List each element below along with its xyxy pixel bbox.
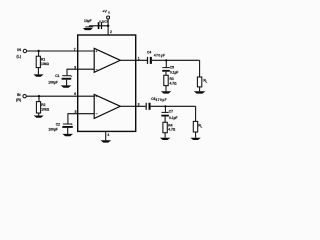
svg-text:R2: R2	[41, 103, 45, 107]
svg-text:+: +	[95, 50, 97, 54]
svg-text:0.1µF: 0.1µF	[170, 71, 179, 75]
capacitor C2	[63, 124, 72, 125]
svg-text:10kΩ: 10kΩ	[41, 108, 50, 112]
svg-text:470µF: 470µF	[154, 54, 166, 58]
ground C2	[62, 134, 73, 136]
wire RL1 down	[199, 60, 201, 77]
node zobel 2	[164, 105, 166, 107]
input terminal R	[23, 95, 26, 98]
resistor R4	[163, 122, 167, 132]
ground RL2	[190, 138, 200, 140]
svg-text:C2: C2	[56, 122, 60, 126]
ground R1	[33, 74, 43, 76]
node input L	[37, 50, 39, 52]
svg-text:3: 3	[138, 102, 140, 106]
svg-text:1: 1	[138, 57, 140, 61]
node zobel 1	[165, 59, 167, 61]
svg-text:4.7Ω: 4.7Ω	[170, 82, 178, 86]
load RL2	[193, 121, 197, 132]
svg-text:6: 6	[74, 92, 76, 96]
svg-text:10kΩ: 10kΩ	[41, 62, 50, 66]
wire R2 top	[38, 96, 40, 101]
svg-text:C4: C4	[147, 50, 151, 54]
resistor R1	[36, 56, 40, 67]
wire pin 4 ground	[105, 131, 107, 140]
wire +Vs to pin 2	[107, 19, 109, 35]
svg-text:(R): (R)	[16, 98, 22, 102]
svg-text:100µF: 100µF	[48, 80, 57, 84]
wire C4 to RL1	[152, 59, 200, 61]
svg-text:100µF: 100µF	[48, 127, 57, 131]
capacitor C7	[164, 106, 166, 112]
svg-text:IN: IN	[17, 48, 21, 52]
svg-text:4.7Ω: 4.7Ω	[168, 128, 176, 132]
input terminal L	[23, 49, 26, 52]
wire pin 5	[68, 114, 94, 124]
svg-text:R1: R1	[41, 57, 45, 61]
resistor R2	[36, 102, 40, 113]
svg-text:0.1µF: 0.1µF	[169, 116, 178, 120]
svg-text:+: +	[95, 95, 97, 99]
svg-text:7: 7	[74, 48, 76, 52]
wire input L to pin 7	[27, 50, 95, 52]
svg-text:4: 4	[107, 133, 109, 137]
resistor R3	[164, 75, 168, 85]
svg-text:2: 2	[110, 30, 112, 34]
capacitor C4	[147, 57, 148, 64]
wire C6 to RL2	[151, 105, 196, 107]
wire pin 3 output	[120, 105, 145, 107]
op-amp A1	[94, 48, 120, 72]
svg-text:C1: C1	[55, 74, 59, 78]
wire RL2 down	[195, 106, 197, 121]
ground R3	[161, 91, 171, 93]
svg-text:+V: +V	[102, 10, 107, 14]
ground RL1	[194, 91, 206, 93]
wire R1 top	[38, 51, 40, 56]
node input R	[38, 95, 40, 97]
capacitor C5	[165, 60, 167, 67]
svg-text:470µF: 470µF	[156, 98, 168, 102]
ground pin 4	[101, 140, 112, 142]
svg-text:−: −	[96, 67, 98, 71]
capacitor 10uF	[88, 25, 90, 28]
ground C1	[61, 85, 72, 87]
load RL1	[197, 77, 201, 87]
ground R4	[160, 138, 170, 140]
svg-text:R3: R3	[170, 77, 174, 81]
svg-text:R4: R4	[168, 123, 172, 127]
svg-text:9: 9	[74, 66, 76, 70]
IC box U1	[78, 35, 136, 131]
svg-text:S: S	[108, 10, 110, 14]
node supply	[107, 25, 110, 28]
wire R2 bottom	[38, 113, 40, 116]
capacitor C6	[146, 103, 147, 110]
svg-text:10µF: 10µF	[84, 19, 92, 23]
op-amp A2	[94, 94, 120, 118]
svg-text:+: +	[71, 122, 73, 126]
svg-text:5: 5	[75, 110, 77, 114]
wire R1 bottom	[37, 68, 39, 75]
svg-text:+: +	[71, 74, 73, 78]
svg-text:IN: IN	[17, 93, 21, 97]
wire pin 9	[67, 69, 94, 75]
wire pin 1 output	[120, 59, 147, 61]
svg-text:0.1(C3: 0.1(C3	[99, 19, 108, 23]
capacitor C1	[62, 75, 71, 76]
svg-text:C7: C7	[169, 110, 173, 114]
wire input R to pin 6	[26, 95, 94, 97]
svg-text:C5: C5	[170, 65, 174, 69]
svg-text:−: −	[96, 112, 98, 116]
wire supply to C3	[89, 25, 108, 27]
svg-text:(L): (L)	[16, 54, 21, 58]
capacitor C3	[98, 22, 100, 29]
ground 10uF	[83, 28, 93, 30]
supply terminal +Vs	[107, 16, 110, 19]
ground R2	[34, 116, 44, 118]
